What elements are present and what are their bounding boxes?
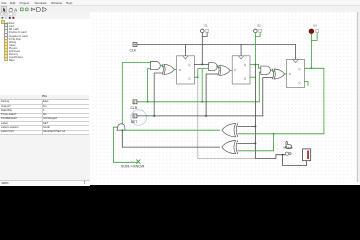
wire S2 to Q2 (255, 36, 257, 64)
D flip-flop FF3 (287, 59, 305, 87)
multiplier input pin (286, 152, 292, 155)
wire CLR rise to G2A (201, 69, 203, 102)
wire feedback loop top (123, 62, 151, 123)
LED S1 (201, 23, 209, 32)
wire S1 loop (203, 33, 208, 37)
D flip-flop FF1 (177, 56, 195, 84)
label XOR->XNOR marker (137, 160, 140, 163)
wire S3 to Q3 (311, 40, 313, 68)
XOR gate XB (facing left) (222, 140, 238, 153)
pin SET (131, 114, 138, 124)
wire clock drop FF2 (240, 44, 242, 55)
XOR gate G2X (218, 65, 230, 75)
wire Q1bar down (floating gray) (198, 77, 256, 158)
wire CLK bus (137, 43, 296, 45)
junction CLR-2 (201, 101, 203, 103)
wire T1 gate lead (114, 127, 137, 162)
wire Q3 branch to XB in2 (238, 134, 274, 151)
junction CLR-1 (147, 101, 149, 103)
transistor T1 (117, 124, 126, 130)
wire Q2bar stub (250, 76, 255, 78)
wire G3A out to G3X (271, 69, 275, 72)
wire clock drop FF1 (185, 44, 187, 55)
wire Q2 down to multiplier (256, 64, 286, 158)
wire G3X out to FF3 D (285, 73, 287, 75)
wire XA in1 (238, 125, 255, 127)
svg-text:SET: SET (131, 120, 138, 124)
XOR gate G1X (162, 64, 174, 74)
svg-text:CLK: CLK (130, 49, 137, 53)
wire XOR-A output to T1 (123, 129, 220, 131)
wire CLR rise to G1A (148, 68, 151, 101)
svg-text:D: D (179, 68, 181, 72)
wire S2 loop (256, 33, 261, 37)
wire G1X out to FF1 D (175, 68, 177, 70)
D flip-flop FF2 (232, 56, 250, 84)
wire CLR bus (137, 101, 259, 103)
wire CLR rise to G3A (260, 72, 261, 102)
wire SET rise to G1X (154, 73, 162, 116)
wire Q3 feedback (238, 68, 324, 133)
wire G2X out to FF2 D (230, 69, 232, 71)
svg-text:D: D (289, 72, 291, 76)
wire S3 loop (312, 33, 318, 41)
hand cursor (286, 141, 292, 148)
wire G1A out to G1X (161, 64, 165, 67)
junction Q3-S3 (311, 67, 313, 69)
svg-text:Multiplier: Multiplier (284, 146, 294, 149)
AND gate G1A (151, 61, 161, 69)
wire SET bus (137, 115, 263, 117)
junction M1 (282, 154, 284, 156)
XOR gate XA (facing left) (222, 123, 238, 136)
wire Q3bar stub (305, 81, 308, 85)
wire Q1 to G2A (195, 63, 209, 65)
junction Q1-S1 (202, 63, 204, 65)
svg-text:S3: S3 (313, 24, 317, 28)
pin CLK (130, 42, 137, 52)
LED S2 (254, 23, 262, 32)
wire Q1bar stub (195, 68, 209, 77)
wire Q2 to G3A (250, 64, 261, 68)
wire G2A out to G2X (217, 65, 220, 68)
svg-text:XOR->XNOR: XOR->XNOR (121, 164, 145, 169)
LED S3 (lit) (309, 24, 318, 34)
junction SET-1 (153, 115, 155, 117)
junction XB in1 (255, 142, 257, 144)
wire SET rise to G3X (263, 77, 273, 115)
junction Q2-S2 (255, 63, 257, 65)
junction Q3 branch (273, 133, 275, 135)
junction SET-2 (205, 115, 207, 117)
wire clock drop FF3 (295, 44, 297, 59)
wire M1 hook (283, 155, 307, 166)
wire SET rise to G2X (206, 74, 218, 116)
component M1 box (303, 149, 311, 161)
junction T1 bottom (122, 129, 124, 131)
junction XA in1 (255, 125, 257, 127)
wire XB in1 (238, 142, 255, 144)
selection halo SET (131, 110, 147, 126)
wire S1 to Q1 (202, 36, 204, 64)
junction Q1bar (197, 76, 199, 78)
explorer mini toolbar (0, 12, 89, 20)
svg-text:D: D (235, 68, 237, 72)
svg-text:S1: S1 (204, 23, 208, 27)
svg-text:S2: S2 (257, 23, 261, 27)
AND gate G2A (209, 63, 218, 71)
AND gate G3A (261, 66, 271, 74)
pin CLR (131, 100, 138, 110)
XOR gate G3X (273, 69, 285, 79)
wire T1 to XOR-B output (123, 130, 220, 147)
